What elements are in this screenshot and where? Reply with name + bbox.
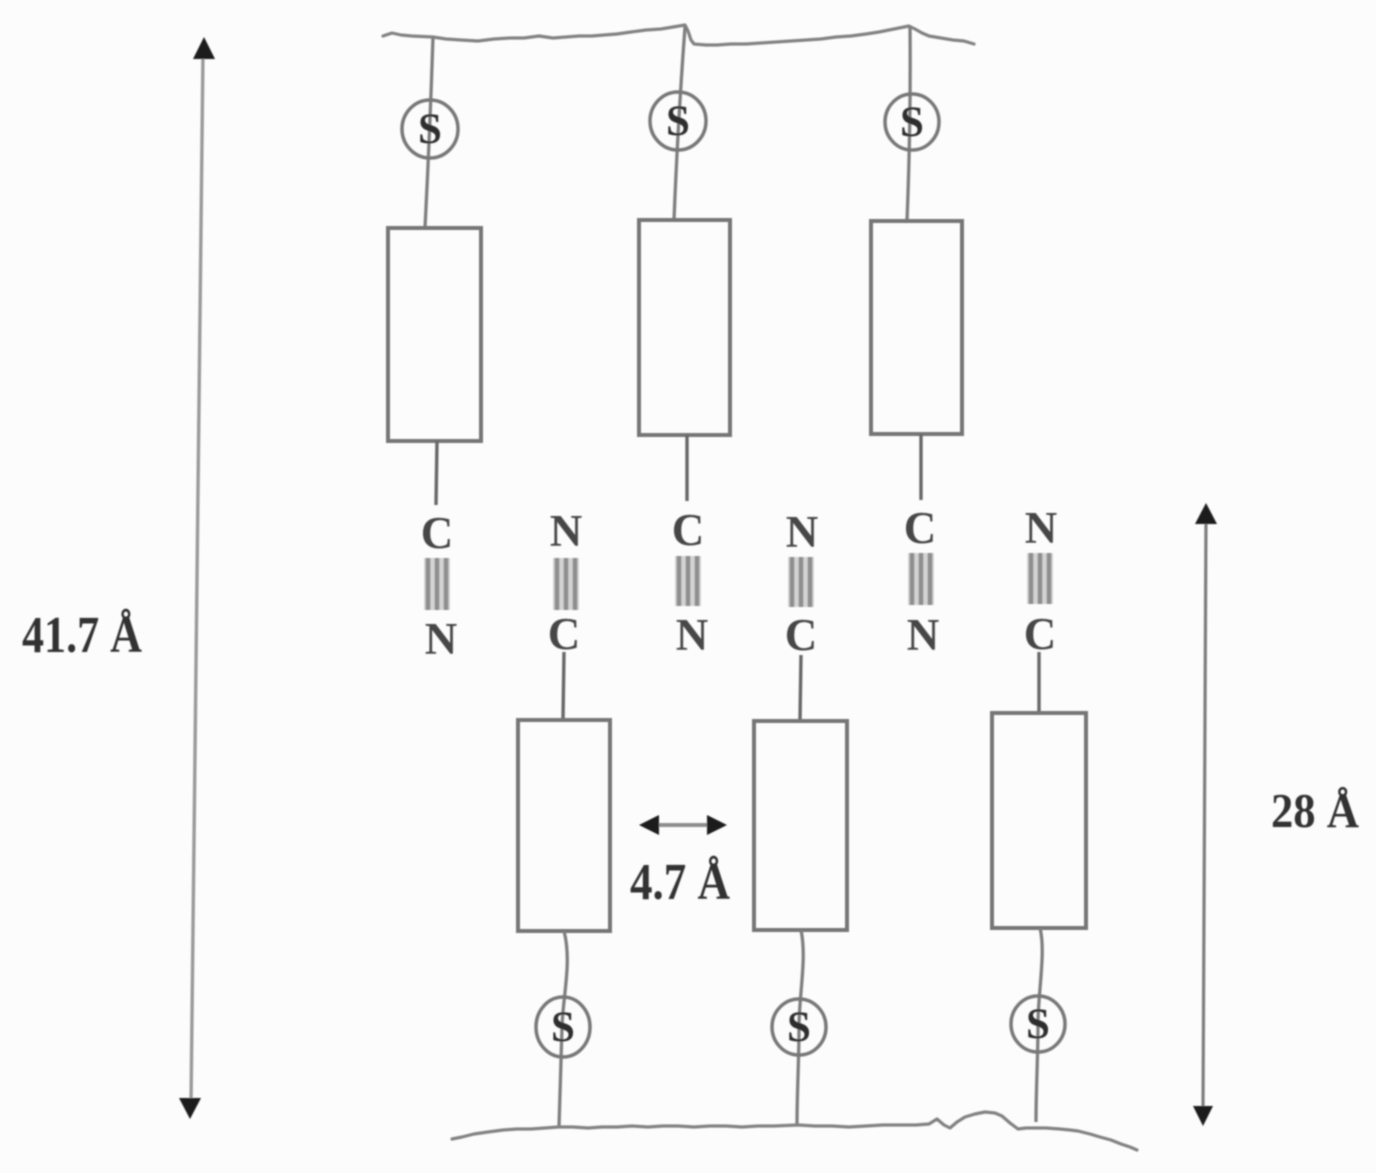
svg-text:4.7 Å: 4.7 Å — [630, 854, 730, 911]
sulfur atom S5 (bottom middle) — [772, 999, 826, 1055]
dimension arrow 41.7 A (left, vertical double-headed) — [179, 37, 215, 1119]
wire: B1 through S4 to bottom surface — [559, 931, 567, 1127]
svg-text:C: C — [1024, 609, 1057, 659]
molecule rod R3 (top row, right) — [871, 221, 962, 434]
svg-text:C: C — [421, 508, 454, 558]
wire: top surface through S3 to rod R3 — [907, 27, 910, 221]
svg-text:N: N — [425, 614, 458, 664]
svg-text:N: N — [786, 507, 819, 557]
sulfur atom S6 (bottom right) — [1011, 996, 1065, 1052]
dimension arrow 28 A (right, vertical double-headed) — [1193, 503, 1217, 1126]
molecule rod R1 (top row, left) — [388, 228, 481, 441]
wire: top surface through S1 to rod R1 — [425, 37, 433, 228]
svg-text:N: N — [1025, 503, 1058, 553]
sulfur atom S1 (top left) — [402, 100, 458, 158]
svg-text:S: S — [551, 1004, 575, 1051]
svg-text:N: N — [550, 506, 583, 556]
svg-text:S: S — [787, 1004, 811, 1051]
wire: C (column 6) to rod B3 — [1037, 652, 1040, 712]
wire: R2 to C (nitrile 3) — [685, 435, 688, 501]
molecule rod B1 (bottom row, left) — [518, 720, 610, 931]
molecule rod R2 (top row, middle) — [639, 220, 730, 435]
wire: top surface through S2 to rod R2 — [674, 27, 685, 220]
wire: B3 through S6 to bottom surface — [1036, 928, 1042, 1122]
svg-text:S: S — [1026, 1001, 1050, 1048]
svg-text:28 Å: 28 Å — [1271, 783, 1360, 838]
svg-text:N: N — [676, 610, 709, 660]
svg-text:C: C — [785, 610, 818, 660]
nitrile group C#N (column 3) — [672, 505, 709, 660]
wire: R1 to C (nitrile 1) — [436, 441, 437, 505]
svg-text:C: C — [904, 503, 937, 553]
top surface (wavy substrate line) — [383, 25, 974, 45]
nitrile group C#N (column 5) — [904, 503, 940, 660]
isocyanide group N#C (column 6) — [1024, 503, 1058, 659]
wire: B2 through S5 to bottom surface — [797, 930, 803, 1125]
bottom surface (wavy substrate line) — [452, 1112, 1137, 1150]
svg-text:S: S — [418, 106, 442, 153]
svg-text:S: S — [666, 98, 690, 145]
molecule rod B3 (bottom row, right) — [992, 713, 1086, 928]
wire: R3 to C (nitrile 5) — [919, 434, 922, 500]
svg-text:C: C — [672, 505, 705, 555]
isocyanide group N#C (column 4) — [785, 507, 819, 660]
sulfur atom S2 (top middle) — [650, 92, 706, 150]
molecule rod B2 (bottom row, middle) — [754, 721, 847, 930]
svg-text:S: S — [900, 99, 924, 146]
wire: C (column 4) to rod B2 — [800, 655, 801, 720]
sulfur atom S3 (top right) — [885, 94, 939, 150]
isocyanide group N#C (column 2) — [548, 506, 583, 659]
svg-text:41.7 Å: 41.7 Å — [22, 607, 142, 664]
svg-text:C: C — [548, 609, 581, 659]
wire: C (column 2) to rod B1 — [563, 652, 564, 719]
svg-text:N: N — [907, 610, 940, 660]
dimension arrow 4.7 A (horizontal double-headed, between B1 and B2) — [639, 815, 727, 835]
sulfur atom S4 (bottom left) — [536, 997, 590, 1057]
nitrile group C#N (column 1) — [421, 508, 458, 664]
